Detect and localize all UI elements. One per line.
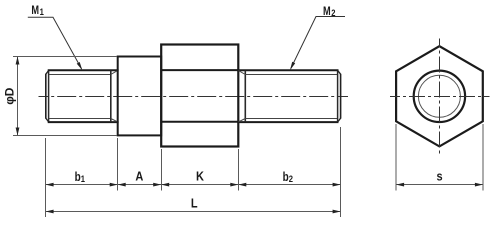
centerline of stud side view [39,96,349,98]
leader arrow M1 [77,62,83,70]
left thread major diameter outline bottom [48,121,119,123]
left thread end face [45,74,47,119]
leader arrow M2 [290,62,295,70]
arrow A right [153,183,161,187]
arrow L right [333,210,341,214]
end view chamfer circle [418,75,460,117]
left thread chamfer diagonals [46,70,49,122]
dimension line s [396,184,483,186]
hex facet line lower [161,121,238,123]
end view horizontal centerline [390,96,490,98]
phi-D arrow down [16,128,20,136]
extension line s right [482,124,484,191]
hex section (K) outline [161,45,238,147]
arrow A left [118,183,126,187]
svg-text:A: A [135,170,143,184]
hexagon end view outline [396,46,483,146]
right thread chamfer circle line [337,70,339,122]
svg-text:b2: b2 [283,171,294,184]
end view thread major circle [414,71,465,122]
right thread major diameter outline top [237,69,338,71]
end view vertical centerline [439,39,441,154]
extension line at stud right end [340,127,342,217]
extension line at stud left end [45,138,47,217]
svg-text:M1: M1 [31,5,44,17]
right thread major diameter outline bottom [237,121,338,123]
right thread runout diagonals [239,71,246,122]
arrow L left [46,210,54,214]
right thread end face [340,74,342,119]
shank section (A, diameter D) outline [118,57,162,136]
extension line s left [395,124,397,191]
extension line at hex left face [161,149,163,191]
svg-text:b1: b1 [75,171,86,184]
extension line at shank left shoulder [117,138,119,191]
extension line at hex right face [238,149,240,191]
phi-D extension line bottom [13,135,117,137]
left thread minor diameter thin line top [49,74,111,76]
svg-text:K: K [196,170,204,184]
arrow s left [396,183,404,187]
arrow b2 right [333,183,341,187]
leader line M2 [291,17,345,69]
left thread runout diagonals [111,71,118,122]
svg-text:s: s [436,170,443,184]
arrow s right [475,183,483,187]
phi-D arrow up [16,57,20,65]
left thread chamfer circle line [48,70,50,122]
left thread major diameter outline top [48,69,119,71]
left thread minor diameter thin line bottom [49,118,111,120]
dimension line row b1 A K b2 [46,184,341,186]
dimension line L [46,211,341,213]
arrow b2 left [238,183,246,187]
phi-D dimension line [17,57,19,136]
arrow b1 right [110,183,118,187]
arrow K right [230,183,238,187]
leader line M1 [28,17,82,69]
right thread minor diameter thin line top [246,74,338,76]
left thread runout vertical [110,71,112,122]
hex facet line upper [161,69,238,71]
phi-D extension line top [13,56,117,58]
svg-text:L: L [191,197,198,211]
arrow K left [161,183,169,187]
right thread runout vertical [244,71,246,122]
svg-text:φD: φD [3,87,17,105]
arrow b1 left [46,183,54,187]
right thread minor diameter thin line bottom [246,118,338,120]
right thread chamfer diagonals [338,70,341,122]
